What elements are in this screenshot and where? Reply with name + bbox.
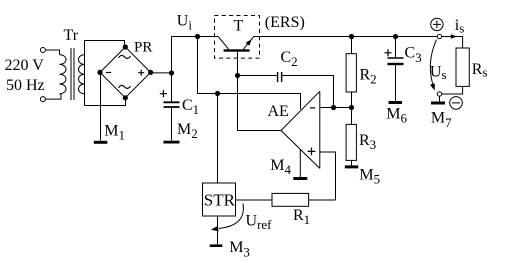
svg-text:Tr: Tr xyxy=(64,27,79,44)
svg-text:is: is xyxy=(455,17,465,36)
svg-text:AE: AE xyxy=(268,103,289,120)
svg-text:Us: Us xyxy=(430,64,447,83)
svg-text:50 Hz: 50 Hz xyxy=(6,77,45,94)
svg-text:220 V: 220 V xyxy=(5,57,45,74)
svg-text:PR: PR xyxy=(134,40,152,56)
svg-text:(ERS): (ERS) xyxy=(265,14,305,31)
svg-text:T: T xyxy=(234,18,244,35)
svg-text:Rs: Rs xyxy=(472,61,488,80)
svg-text:STR: STR xyxy=(204,191,236,210)
